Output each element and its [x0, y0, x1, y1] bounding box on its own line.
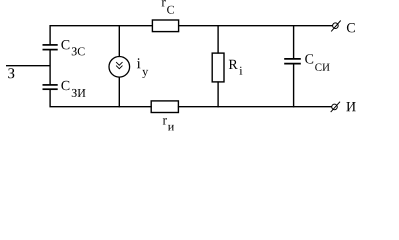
label i_у [137, 58, 148, 78]
wire: bottom rail from r_И to source terminal [178, 106, 332, 108]
node С label [347, 23, 355, 32]
label C_СИ [305, 54, 330, 71]
wire: current source branch upper [118, 25, 120, 57]
resistor r_И (bottom rail) [151, 101, 178, 113]
capacitor C_ЗС plates [43, 45, 58, 50]
wire: C_СИ branch upper [293, 25, 295, 59]
wire: left vertical bottom and bottom rail to resistor r_И [50, 89, 152, 107]
wire: C_СИ branch lower [293, 64, 295, 107]
current source i_у circle [109, 57, 130, 78]
node И label [346, 102, 355, 111]
terminal С (drain): circle with slash [331, 21, 341, 32]
wire: current source branch lower [118, 77, 120, 107]
label C_ЗИ [61, 81, 85, 97]
wire: gate lead (left horizontal to node З) [6, 65, 50, 67]
capacitor C_СИ plates [284, 59, 301, 64]
label r_И [163, 118, 174, 130]
resistor R_i [212, 53, 224, 82]
wire: left vertical between C_ЗС and C_ЗИ (through node З) [49, 50, 51, 85]
node З label [8, 68, 14, 78]
wire: top rail from r_С to drain terminal [178, 25, 333, 27]
resistor r_С (top rail) [152, 20, 178, 32]
terminal И (source): circle with slash [331, 102, 340, 112]
label C_ЗС [61, 40, 84, 55]
capacitor C_ЗИ plates [43, 85, 58, 89]
current source double chevron arrow [116, 62, 122, 69]
wire: R_i branch lower [217, 81, 219, 107]
label R_i [229, 60, 243, 75]
wire: left vertical top and top rail to resistor r_С [50, 26, 153, 46]
label r_С [162, 0, 174, 14]
wire: R_i branch upper [217, 25, 219, 54]
